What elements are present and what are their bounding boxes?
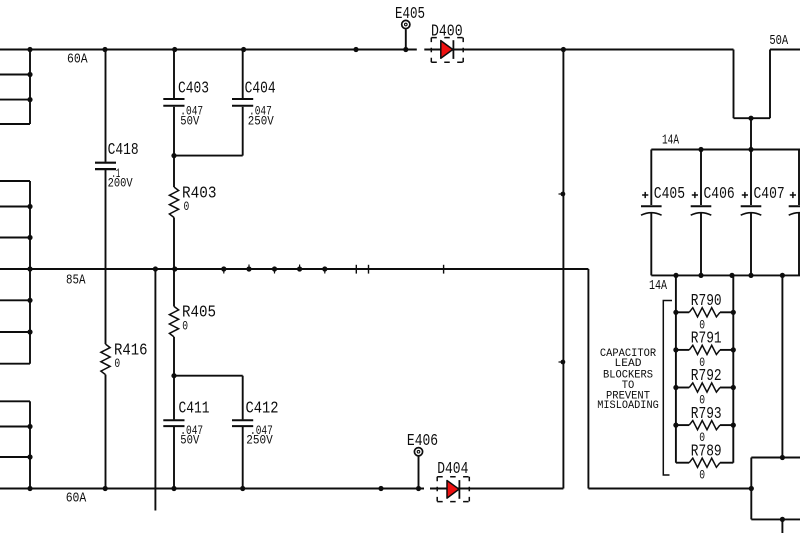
- junction: [731, 347, 736, 352]
- wire 85A drop x=588: [587, 269, 589, 489]
- svg-text:60A: 60A: [67, 52, 88, 68]
- capacitor C407 top plate: [741, 205, 762, 207]
- capacitor C412 bottom plate: [232, 425, 253, 427]
- svg-text:R793: R793: [691, 405, 722, 424]
- connector group 2 bus: [29, 181, 31, 364]
- connector pin stub: [0, 426, 30, 428]
- wire 14A bottom rail: [651, 274, 800, 276]
- resistor R405: [169, 306, 178, 337]
- svg-text:0: 0: [699, 468, 705, 483]
- wire ladder right rail: [732, 275, 734, 462]
- junction: [27, 204, 32, 209]
- wire drop x=155 from 85A past 60A: [154, 269, 156, 511]
- diode D400 dashed box bottom: [431, 61, 463, 63]
- svg-text:C418: C418: [108, 141, 139, 160]
- svg-text:50V: 50V: [180, 432, 199, 447]
- junction: [673, 273, 678, 278]
- svg-text:60A: 60A: [66, 491, 87, 507]
- svg-text:14A: 14A: [662, 133, 679, 149]
- junction: [698, 147, 703, 152]
- svg-text:C404: C404: [245, 80, 276, 99]
- svg-text:D404: D404: [437, 460, 468, 479]
- resistor R791: [689, 345, 720, 354]
- terminal E405 inner dot: [405, 23, 408, 26]
- svg-text:0: 0: [184, 199, 190, 214]
- junction: [171, 486, 176, 491]
- wire bottom-right left vertical: [750, 458, 752, 520]
- wire C403 top leg: [173, 50, 175, 99]
- wire C411-C412 join: [174, 375, 243, 377]
- junction: [27, 266, 32, 271]
- junction: [27, 454, 32, 459]
- wire bottom-right bottom stub: [751, 518, 800, 520]
- junction: [673, 347, 678, 352]
- junction: [240, 486, 245, 491]
- connector group 1 bus: [29, 50, 31, 125]
- junction: [780, 517, 785, 522]
- junction: [780, 455, 785, 460]
- junction: [172, 266, 177, 271]
- wire 85A rail: [0, 268, 588, 270]
- junction with stub: [561, 192, 566, 197]
- wire x=782 drop to bottom edge: [781, 519, 783, 533]
- capacitor C404 top plate: [232, 98, 253, 100]
- connector pin stub: [0, 206, 30, 208]
- wire C411 bottom leg: [173, 427, 175, 489]
- connector pin stub: [0, 99, 30, 101]
- diode D404 anode triangle: [447, 481, 459, 499]
- junction: [27, 47, 32, 52]
- wire C408 bottom leg: [798, 213, 800, 275]
- wire C407 top leg: [750, 150, 752, 206]
- svg-text:0: 0: [182, 318, 188, 333]
- svg-text:C407: C407: [754, 185, 785, 204]
- diode D404 cathode bar: [458, 480, 460, 499]
- svg-text:R789: R789: [691, 442, 722, 461]
- svg-text:C403: C403: [178, 80, 209, 99]
- junction: [27, 72, 32, 77]
- wire top-right notch bottom: [734, 117, 771, 119]
- connector pin stub: [0, 363, 30, 365]
- junction: [378, 486, 383, 491]
- wire C405 top leg: [650, 150, 652, 206]
- junction: [731, 310, 736, 315]
- connector pin stub: [0, 74, 30, 76]
- wire E406 stub: [418, 456, 420, 488]
- wire C406 bottom leg: [700, 213, 702, 275]
- polarity + of C407: [742, 194, 748, 196]
- capacitor C404 bottom plate: [232, 105, 253, 107]
- resistor R416: [101, 344, 110, 375]
- junction: [748, 147, 753, 152]
- junction: [731, 423, 736, 428]
- wire R405 to C411 junction: [173, 337, 175, 376]
- terminal E405 outer ring: [402, 20, 410, 28]
- tick on 85A: [443, 265, 445, 274]
- capacitor C403 top plate: [163, 98, 184, 100]
- svg-text:250V: 250V: [248, 113, 274, 128]
- capacitor C406 curved plate: [691, 213, 712, 216]
- junction: [27, 329, 32, 334]
- connector group 3 bus: [29, 401, 31, 488]
- junction: [731, 385, 736, 390]
- svg-text:C405: C405: [654, 185, 685, 204]
- capacitor C418 top plate: [95, 162, 116, 164]
- wire C403 bottom leg: [173, 107, 175, 156]
- wire R403 to 85A: [173, 218, 175, 270]
- capacitor C408 curved plate: [789, 213, 800, 216]
- wire C418 top leg: [105, 50, 107, 162]
- junction: [172, 47, 177, 52]
- capacitor C412 top plate: [232, 419, 253, 421]
- diode D400 cathode bar: [452, 40, 454, 59]
- resistor R403: [169, 187, 178, 218]
- diode D404 dashed box top: [437, 476, 469, 478]
- svg-text:R792: R792: [691, 367, 722, 386]
- svg-text:MISLOADING: MISLOADING: [597, 400, 659, 412]
- connector pin stub: [0, 456, 30, 458]
- wire C405 bottom leg: [650, 213, 652, 275]
- svg-text:C406: C406: [704, 185, 735, 204]
- junction: [673, 310, 678, 315]
- svg-text:C412: C412: [246, 399, 279, 418]
- junction: [673, 385, 678, 390]
- connector pin stub: [0, 123, 30, 125]
- junction: [297, 266, 302, 271]
- svg-text:D400: D400: [431, 23, 463, 42]
- wire bottom-right top stub: [751, 457, 800, 459]
- svg-text:E406: E406: [407, 432, 438, 451]
- connector pin stub: [0, 237, 30, 239]
- capacitor C411 top plate: [163, 419, 184, 421]
- resistor R790: [689, 308, 720, 317]
- polarity + of C406: [692, 194, 698, 196]
- wire R792 right lead: [720, 387, 733, 389]
- terminal E406 outer ring: [414, 448, 422, 456]
- svg-text:85A: 85A: [66, 273, 86, 289]
- wire 60A top rail (left segment): [0, 49, 417, 51]
- junction: [403, 47, 408, 52]
- diode D404 dashed box left: [436, 477, 438, 502]
- wire 60A bottom rail (through D404 to corner): [430, 488, 563, 490]
- capacitor C408 top plate: [789, 205, 800, 207]
- capacitor C405 curved plate: [641, 213, 662, 216]
- wire R405 top lead: [173, 269, 175, 306]
- junction: [221, 266, 226, 271]
- wire C404 bottom leg: [242, 107, 244, 156]
- wire R790 left lead: [676, 311, 689, 313]
- wire top-right notch left vertical: [733, 50, 735, 119]
- junction: [171, 373, 176, 378]
- wire vertical 60A feed x=563: [562, 50, 564, 489]
- wire top-right notch right vertical: [769, 50, 771, 119]
- junction: [103, 486, 108, 491]
- diode D400 anode triangle: [441, 41, 453, 59]
- wire C408 top leg: [798, 150, 800, 206]
- wire R793 left lead: [676, 424, 689, 426]
- junction: [102, 47, 107, 52]
- wire C404 top leg: [242, 50, 244, 99]
- tick on 85A: [355, 265, 357, 274]
- wire 60A bottom rail (left segment): [0, 488, 424, 490]
- connector pin stub: [0, 180, 30, 182]
- wire R793 right lead: [720, 424, 733, 426]
- junction: [780, 273, 785, 278]
- wire ladder left rail: [675, 275, 677, 462]
- wire C407 bottom leg: [750, 213, 752, 275]
- wire x=782 drop from 14A rail: [781, 275, 783, 457]
- wire 50A stub to right edge: [770, 49, 800, 51]
- capacitor C406 top plate: [691, 205, 712, 207]
- wire R791 right lead: [720, 349, 733, 351]
- wire C418 to R416: [105, 170, 107, 344]
- junction: [246, 266, 251, 271]
- junction: [698, 273, 703, 278]
- junction: [241, 47, 246, 52]
- tick on 85A: [368, 265, 370, 274]
- wire R403 top lead: [173, 156, 175, 187]
- junction: [27, 298, 32, 303]
- capacitor C405 top plate: [641, 205, 662, 207]
- wire R792 left lead: [676, 387, 689, 389]
- connector pin stub: [0, 400, 30, 402]
- wire R416 to 60A bottom: [105, 375, 107, 489]
- junction: [749, 486, 754, 491]
- svg-text:R790: R790: [691, 292, 722, 311]
- wire C412 top leg: [242, 376, 244, 420]
- polarity + of C405: [642, 194, 648, 196]
- connector pin stub: [0, 299, 30, 301]
- wire C412 bottom leg: [242, 427, 244, 489]
- capacitor C411 bottom plate: [163, 425, 184, 427]
- wire 60A top rail (through D400 to corner): [424, 49, 733, 51]
- junction: [27, 424, 32, 429]
- polarity + of C408: [790, 194, 796, 196]
- wire R789 right lead: [720, 462, 733, 464]
- junction: [171, 153, 176, 158]
- junction: [272, 266, 277, 271]
- junction: [27, 235, 32, 240]
- wire C406 top leg: [700, 150, 702, 206]
- junction: [322, 266, 327, 271]
- junction with stub: [561, 360, 566, 365]
- junction: [353, 47, 358, 52]
- wire E405 stub: [405, 29, 407, 49]
- resistor R793: [689, 421, 720, 430]
- wire R789 left lead: [676, 462, 689, 464]
- svg-text:R791: R791: [691, 330, 722, 349]
- diode D400 dashed box right: [462, 38, 464, 63]
- junction: [748, 273, 753, 278]
- svg-text:C411: C411: [179, 399, 210, 418]
- svg-text:250V: 250V: [246, 432, 273, 447]
- svg-text:50V: 50V: [180, 113, 199, 128]
- svg-text:0: 0: [114, 356, 120, 371]
- svg-text:14A: 14A: [649, 278, 667, 294]
- junction: [153, 266, 158, 271]
- capacitor C418 bottom plate: [95, 168, 116, 170]
- svg-text:E405: E405: [395, 5, 425, 24]
- wire 14A top rail: [651, 149, 800, 151]
- wire notch to 14A rail: [750, 118, 752, 149]
- junction: [561, 47, 566, 52]
- wire C403-C404 join: [174, 155, 243, 157]
- bracket for blockers note: [663, 301, 672, 476]
- connector pin stub: [0, 331, 30, 333]
- capacitor C407 curved plate: [741, 213, 762, 216]
- diode D404 dashed box bottom: [437, 501, 469, 503]
- wire R791 left lead: [676, 349, 689, 351]
- diode D400 dashed box left: [430, 38, 432, 63]
- wire R790 right lead: [720, 311, 733, 313]
- svg-text:200V: 200V: [108, 175, 133, 190]
- junction: [673, 423, 678, 428]
- junction: [27, 486, 32, 491]
- terminal E406 inner dot: [417, 450, 420, 453]
- resistor R792: [689, 383, 720, 392]
- wire C411 top leg: [173, 376, 175, 420]
- capacitor C403 bottom plate: [163, 105, 184, 107]
- junction: [748, 116, 753, 121]
- junction: [416, 486, 421, 491]
- resistor R789: [689, 458, 720, 467]
- junction: [27, 97, 32, 102]
- diode D404 dashed box right: [468, 477, 470, 502]
- svg-text:50A: 50A: [769, 33, 788, 49]
- svg-text:LEAD: LEAD: [615, 358, 642, 370]
- junction: [729, 273, 734, 278]
- wire 85A bottom run to right block: [588, 488, 751, 490]
- diode D400 dashed box top: [431, 37, 463, 39]
